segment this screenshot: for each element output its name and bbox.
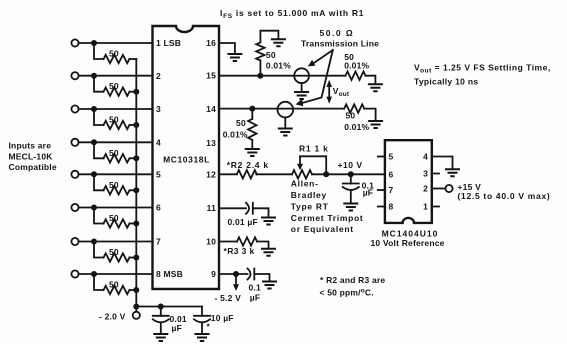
junction input 8	[91, 271, 97, 277]
svg-text:50: 50	[266, 50, 276, 60]
wire U1 pin 12 reference line	[219, 173, 385, 175]
ground (R3)	[261, 249, 276, 256]
ground (pin 9 cap)	[262, 282, 277, 289]
junction input 7	[91, 239, 97, 245]
svg-text:*: *	[207, 322, 211, 332]
svg-text:6: 6	[156, 203, 161, 213]
svg-text:(12.5 to 40.0 V max): (12.5 to 40.0 V max)	[458, 191, 551, 201]
svg-text:7: 7	[389, 185, 394, 195]
junction trimpot wiper	[323, 171, 329, 177]
svg-text:9: 9	[211, 269, 216, 279]
svg-text:5: 5	[156, 170, 161, 180]
svg-text:6: 6	[389, 169, 394, 179]
ground (C1)	[153, 334, 168, 341]
svg-text:0.01 µF: 0.01 µF	[228, 217, 258, 227]
ground (pin 15 shunt resistor)	[271, 39, 286, 46]
input terminal J1	[71, 39, 78, 46]
wire input 7 to U1 pin 7	[79, 241, 153, 243]
ground (pin 16)	[227, 54, 242, 61]
capacitor 0.1 uF (pin 9)	[248, 269, 270, 303]
wire U1 pin 15 output line	[219, 75, 346, 77]
terminal +15 V	[445, 182, 550, 201]
ground (U2 pin 4)	[445, 169, 460, 176]
svg-text:Cermet Trimpot: Cermet Trimpot	[291, 213, 364, 223]
input terminal J6	[71, 204, 78, 211]
resistor R3 3 k	[224, 237, 269, 256]
resistor 50 (input 2)	[94, 76, 139, 96]
wire line 15 to ground	[366, 76, 376, 84]
ground (coax 2)	[278, 129, 293, 136]
wire input 3 to U1 pin 3	[79, 108, 153, 110]
junction bus to bypass caps	[133, 304, 139, 310]
junction input 1	[91, 40, 97, 46]
svg-text:50: 50	[109, 180, 119, 190]
svg-text:*R2 2.4 k: *R2 2.4 k	[227, 160, 269, 170]
svg-text:Bradley: Bradley	[291, 190, 327, 200]
svg-text:10 Volt Reference: 10 Volt Reference	[371, 238, 445, 248]
svg-text:50: 50	[109, 213, 119, 223]
U2 pin 5 label and tick	[378, 152, 394, 162]
capacitor C2 10 uF	[194, 307, 234, 334]
svg-text:Transmission Line: Transmission Line	[301, 38, 379, 48]
resistor 50 (input 5)	[94, 174, 139, 194]
wire U1 pin 9	[219, 273, 248, 275]
power -5.2 V arrow	[215, 274, 242, 303]
callout arrow to coax 1	[308, 50, 333, 66]
wire input 1 to U1 pin 1	[79, 42, 153, 44]
input terminal J2	[71, 72, 78, 79]
svg-text:8: 8	[389, 202, 394, 212]
svg-text:Inputs are: Inputs are	[9, 141, 52, 151]
svg-text:3: 3	[156, 104, 161, 114]
svg-text:*R3 3 k: *R3 3 k	[224, 246, 255, 256]
svg-text:0.1: 0.1	[249, 283, 261, 293]
U2 pin 8 label and tick	[378, 202, 394, 212]
svg-text:0.01%: 0.01%	[223, 130, 248, 140]
svg-text:50: 50	[109, 81, 119, 91]
svg-text:0.01%: 0.01%	[266, 61, 291, 71]
wire termination bus	[135, 59, 137, 312]
svg-text:- 5.2 V: - 5.2 V	[215, 293, 242, 303]
svg-text:+10 V: +10 V	[338, 160, 363, 170]
junction input 5	[91, 171, 97, 177]
svg-text:10: 10	[206, 237, 216, 247]
trimpot R1 1 k	[292, 144, 329, 179]
svg-text:10 µF: 10 µF	[211, 313, 234, 323]
capacitor C1 0.01 uF	[153, 307, 187, 334]
resistor 50 (input 1)	[94, 43, 136, 63]
node +10 V junction	[338, 160, 363, 177]
svg-text:3: 3	[423, 169, 428, 179]
wire U2 pin 2 to +15 V terminal	[432, 188, 446, 190]
svg-text:14: 14	[206, 104, 216, 114]
junction cap C1	[158, 304, 164, 310]
U2 pin 7 label and tick	[378, 185, 394, 195]
wire U1 pin 11	[219, 207, 246, 209]
input terminal J4	[71, 139, 78, 146]
svg-text:µF: µF	[250, 293, 260, 303]
resistor 50 (input 3)	[94, 109, 139, 129]
resistor 50 0.01% (line 15 termination)	[344, 52, 369, 80]
ground (pin 11 cap)	[261, 218, 276, 225]
resistor 50 (input 8)	[94, 274, 139, 294]
svg-text:Typically 10 ns: Typically 10 ns	[414, 77, 478, 87]
svg-text:8 MSB: 8 MSB	[156, 269, 183, 279]
input terminal J3	[71, 105, 78, 112]
junction pin 15 / R 50 0.01%	[257, 73, 263, 79]
IC U2 MC1404U10 body	[371, 140, 445, 248]
svg-text:50: 50	[236, 118, 246, 128]
wire input 5 to U1 pin 5	[79, 173, 153, 175]
ground (coax 1)	[294, 92, 309, 99]
svg-text:16: 16	[206, 38, 216, 48]
svg-text:or Equivalent: or Equivalent	[291, 224, 354, 234]
svg-text:50: 50	[346, 111, 356, 121]
transmission line coax 2	[278, 102, 294, 128]
note: Vout = 1.25 V FS Settling Time, Typically 10 ns	[414, 63, 551, 87]
note: Allen-Bradley Type RT Cermet Trimpot or Equivalent	[291, 179, 364, 235]
svg-text:MECL-10K: MECL-10K	[9, 152, 54, 162]
ground (0.1 uF bypass)	[343, 204, 358, 211]
svg-text:11: 11	[207, 203, 216, 213]
wire U1 pin 16	[219, 43, 235, 54]
wire input 4 to U1 pin 4	[79, 141, 153, 143]
resistor 50 (input 4)	[94, 142, 139, 162]
svg-text:Type RT: Type RT	[291, 202, 329, 212]
svg-text:50: 50	[109, 148, 119, 158]
input terminal J7	[71, 238, 78, 245]
svg-text:1: 1	[423, 202, 428, 212]
input terminal J5	[71, 171, 78, 178]
U2 pin 1 label and tick	[423, 202, 439, 212]
svg-text:7: 7	[156, 237, 161, 247]
svg-text:15: 15	[206, 71, 216, 81]
wire input 6 to U1 pin 6	[79, 207, 153, 209]
svg-text:- 2.0 V: - 2.0 V	[99, 312, 126, 322]
svg-text:µF: µF	[363, 188, 374, 198]
svg-text:4: 4	[156, 138, 161, 148]
junction input 6	[91, 205, 97, 211]
junction input 3	[91, 106, 97, 112]
U2 pin 3 label and tick	[423, 169, 439, 179]
note: R2 and R3 are < 50 ppm/C	[320, 275, 386, 298]
ground (line 15)	[368, 84, 383, 91]
resistor 50 0.01% (line 14 termination)	[344, 104, 369, 132]
svg-text:µF: µF	[172, 323, 183, 333]
terminal -2.0 V	[99, 312, 140, 322]
wire U1 pin 10	[219, 241, 237, 243]
resistor 50 (input 7)	[94, 242, 139, 262]
note: Inputs are MECL-10K Compatible	[9, 141, 57, 173]
svg-text:* R2 and R3 are: * R2 and R3 are	[320, 275, 385, 285]
input terminal J8	[71, 270, 78, 277]
svg-text:2: 2	[423, 184, 428, 194]
svg-text:Compatible: Compatible	[9, 162, 57, 172]
callout arrow to coax 2	[296, 50, 333, 106]
wire U1 pin 14 output line	[219, 108, 344, 110]
svg-text:1 LSB: 1 LSB	[156, 38, 181, 48]
svg-text:Allen-: Allen-	[291, 179, 319, 189]
wire line 14 to ground	[364, 109, 375, 121]
svg-text:50.0 Ω: 50.0 Ω	[320, 28, 355, 38]
capacitor 0.1 uF (+10 V bypass)	[343, 174, 374, 203]
resistor 50 0.01% (pin 15 shunt)	[256, 31, 291, 76]
junction input 2	[91, 73, 97, 79]
ground (C2)	[195, 334, 210, 341]
svg-text:MC1404U10: MC1404U10	[382, 229, 439, 239]
note: 50.0 ohm Transmission Line	[301, 28, 379, 48]
ground (pin 14 shunt resistor)	[245, 149, 260, 156]
capacitor 0.01 uF (pin 11)	[228, 203, 269, 227]
junction pin 9	[233, 271, 239, 277]
svg-text:50: 50	[109, 115, 119, 125]
IC U1 MC10318L body	[153, 26, 220, 289]
svg-text:13: 13	[206, 138, 216, 148]
wire U2 pin 4 to ground	[432, 157, 453, 169]
svg-text:50: 50	[109, 49, 119, 59]
wire input 8 to U1 pin 8	[79, 273, 153, 275]
junction pin 14 / R 50 0.01%	[249, 106, 255, 112]
Vout measurement arrow	[326, 80, 332, 104]
svg-text:0.01%: 0.01%	[344, 122, 369, 132]
resistor 50 (input 6)	[94, 208, 139, 228]
transmission line coax 1	[294, 68, 309, 91]
svg-text:50: 50	[109, 280, 119, 290]
svg-text:50: 50	[109, 247, 119, 257]
svg-text:5: 5	[389, 152, 394, 162]
resistor 50 0.01% (pin 14 shunt)	[223, 109, 257, 149]
svg-text:MC10318L: MC10318L	[163, 155, 210, 165]
svg-text:2: 2	[156, 71, 161, 81]
svg-text:< 50 ppm/oC.: < 50 ppm/oC.	[320, 288, 374, 298]
resistor R2 2.4 k	[227, 160, 269, 179]
wire input 2 to U1 pin 2	[79, 75, 153, 77]
junction input 4	[91, 139, 97, 145]
wire to bypass caps	[136, 306, 202, 308]
svg-text:0.01%: 0.01%	[344, 60, 369, 70]
svg-text:4: 4	[423, 152, 428, 162]
svg-text:R1 1 k: R1 1 k	[299, 144, 329, 154]
svg-text:12: 12	[206, 170, 216, 180]
ground (line 14)	[368, 121, 383, 128]
